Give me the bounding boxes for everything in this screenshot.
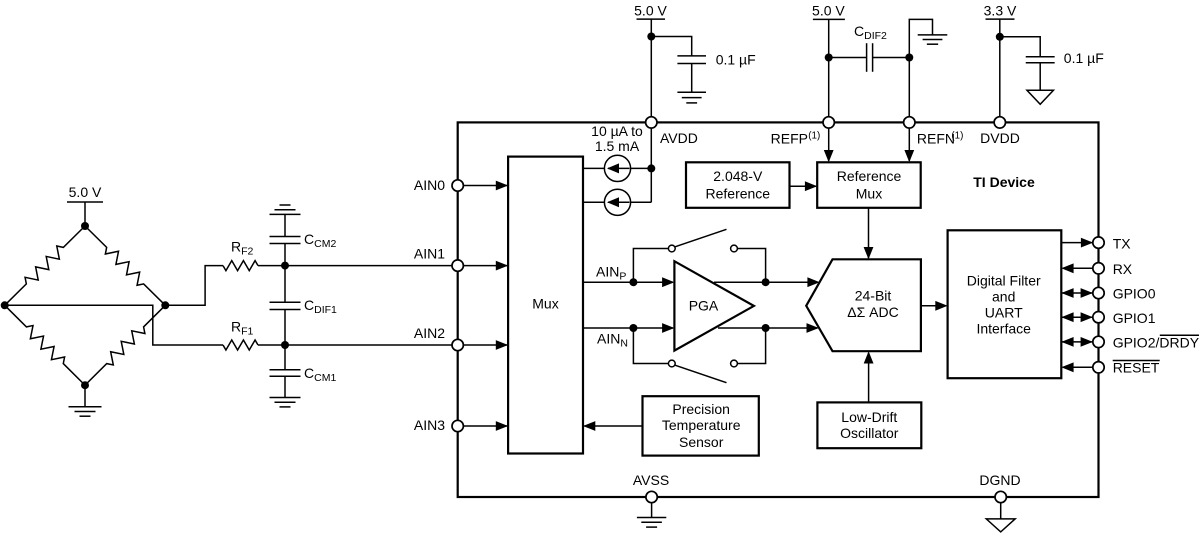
svg-text:AIN3: AIN3	[414, 417, 445, 433]
svg-text:UART: UART	[985, 305, 1023, 321]
svg-text:Interface: Interface	[976, 320, 1031, 336]
svg-text:GPIO2/DRDY: GPIO2/DRDY	[1113, 334, 1199, 350]
svg-text:3.3 V: 3.3 V	[984, 3, 1017, 19]
svg-text:Digital Filter: Digital Filter	[967, 272, 1041, 288]
svg-text:DGND: DGND	[979, 472, 1020, 488]
svg-text:(1): (1)	[951, 130, 963, 141]
svg-text:Mux: Mux	[856, 186, 882, 202]
svg-text:AVDD: AVDD	[660, 130, 698, 146]
svg-text:ΔΣ ADC: ΔΣ ADC	[847, 304, 898, 320]
svg-text:REFN: REFN	[917, 130, 955, 146]
svg-text:Mux: Mux	[532, 296, 558, 312]
svg-text:Reference: Reference	[837, 168, 902, 184]
svg-text:RESET: RESET	[1113, 360, 1160, 376]
svg-text:AIN1: AIN1	[414, 246, 445, 262]
svg-text:and: and	[992, 289, 1015, 305]
svg-text:Reference: Reference	[706, 186, 771, 202]
svg-text:5.0 V: 5.0 V	[812, 3, 845, 19]
svg-text:10 µA to: 10 µA to	[591, 123, 643, 139]
svg-text:5.0 V: 5.0 V	[634, 3, 667, 19]
svg-text:PGA: PGA	[689, 297, 719, 313]
svg-text:AVSS: AVSS	[633, 472, 669, 488]
svg-text:TI Device: TI Device	[973, 174, 1035, 190]
svg-text:RX: RX	[1113, 261, 1133, 277]
svg-text:AIN2: AIN2	[414, 325, 445, 341]
svg-text:Temperature: Temperature	[662, 417, 741, 433]
svg-text:5.0 V: 5.0 V	[69, 184, 102, 200]
svg-text:24-Bit: 24-Bit	[855, 287, 892, 303]
svg-text:(1): (1)	[808, 130, 820, 141]
svg-text:AIN0: AIN0	[414, 177, 445, 193]
svg-text:2.048-V: 2.048-V	[713, 168, 763, 184]
svg-text:Oscillator: Oscillator	[840, 425, 899, 441]
svg-text:Low-Drift: Low-Drift	[841, 409, 897, 425]
svg-text:1.5 mA: 1.5 mA	[595, 138, 640, 154]
svg-text:REFP: REFP	[771, 130, 808, 146]
svg-text:GPIO1: GPIO1	[1113, 310, 1156, 326]
svg-text:TX: TX	[1113, 235, 1132, 251]
svg-text:0.1 µF: 0.1 µF	[1064, 50, 1104, 66]
svg-text:GPIO0: GPIO0	[1113, 286, 1156, 302]
svg-text:Precision: Precision	[672, 401, 730, 417]
svg-text:DVDD: DVDD	[980, 130, 1020, 146]
svg-text:0.1 µF: 0.1 µF	[716, 52, 756, 68]
svg-text:Sensor: Sensor	[679, 434, 724, 450]
